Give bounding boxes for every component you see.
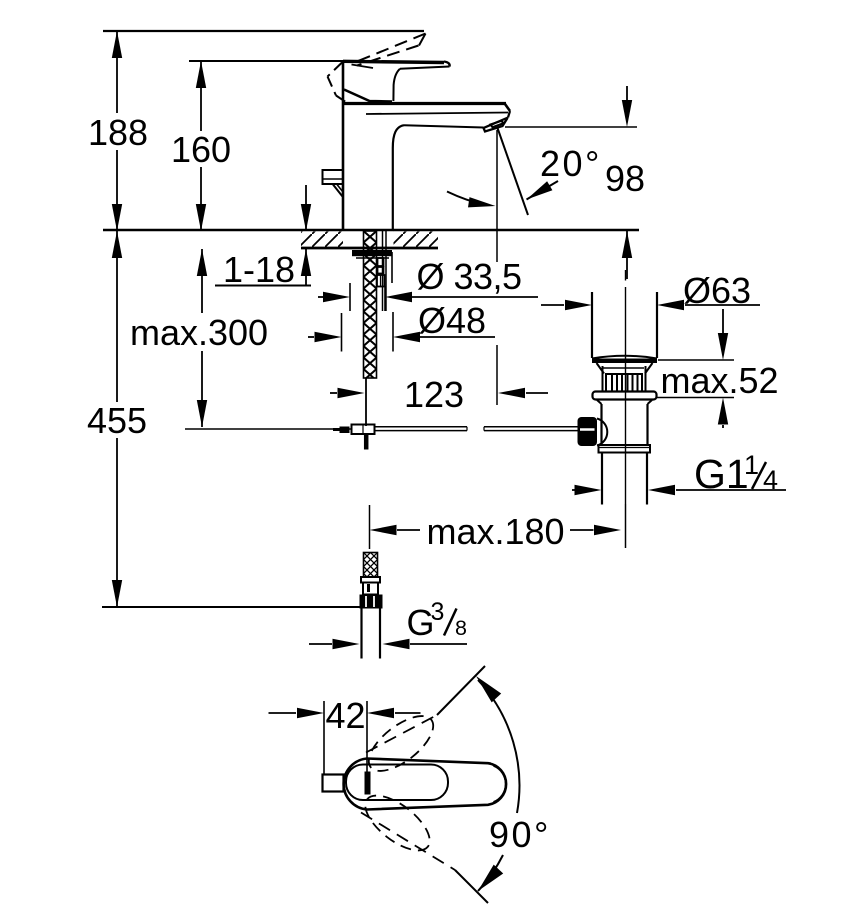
drain centre line [625, 270, 627, 281]
drain body taper [597, 400, 602, 404]
dimension 98 [626, 86, 628, 104]
dimension 188 line [116, 31, 118, 113]
handle top view tip line [494, 766, 506, 802]
svg-text:max.300: max.300 [130, 312, 268, 353]
dimension 160 line [200, 61, 202, 131]
svg-text:98: 98 [605, 158, 645, 199]
svg-text:160: 160 [171, 129, 231, 170]
svg-text:G1: G1 [694, 451, 749, 497]
svg-text:123: 123 [404, 374, 464, 415]
handle neck curve [393, 69, 400, 101]
dimension diameter 33.5 [349, 283, 351, 311]
drain plug flange band [592, 359, 657, 364]
deck hatching right [394, 232, 439, 248]
handle top view inner line [346, 765, 448, 801]
dimension G1 1/4 [572, 489, 575, 491]
drain neck sides [602, 366, 604, 392]
pop-up rod left segment [375, 426, 468, 428]
deck hatching left [301, 232, 343, 248]
dimension 123 [330, 392, 337, 394]
svg-text:Ø 33,5: Ø 33,5 [416, 256, 521, 297]
20 degree leader arrow [527, 181, 559, 200]
faucet body front curve [393, 125, 404, 229]
drain plug dome [592, 356, 657, 359]
water stream 20 degree line [498, 128, 529, 215]
rod level extension line [185, 428, 352, 430]
svg-text:1: 1 [744, 450, 759, 480]
dashed swing line lower [361, 813, 455, 871]
pull rod lower tip [364, 434, 369, 450]
faucet spout aerator [484, 118, 509, 132]
countertop deck bottom line [301, 247, 438, 250]
dimension 42 [323, 701, 325, 776]
hose braid lower [364, 553, 378, 578]
handle lever underside [400, 67, 450, 69]
svg-text:90°: 90° [489, 814, 551, 855]
faucet spout right edge [508, 111, 510, 118]
valve stub top view [323, 775, 344, 792]
drain neck taper [597, 363, 605, 374]
svg-text:20°: 20° [540, 143, 602, 184]
dimension max.52 [722, 309, 724, 333]
faucet body top edge [342, 102, 506, 105]
max52 extension lines [658, 359, 734, 361]
dimension G 3/8 [309, 643, 332, 645]
spout centre vertical line [496, 130, 498, 262]
threaded shank braided hose [364, 231, 377, 378]
pull rod connector [352, 425, 375, 435]
90 degree swing arc [478, 680, 519, 813]
datum line bottom (hose end) [102, 606, 360, 608]
faucet body top back edge [366, 113, 508, 115]
datum line 160 (handle top) [189, 60, 344, 62]
body side tab [323, 170, 344, 184]
dimension max.180 [369, 505, 371, 549]
svg-text:455: 455 [87, 400, 147, 441]
drain knob [578, 417, 598, 446]
drain ring [599, 445, 651, 453]
handle top view marker [365, 772, 371, 795]
svg-text:42: 42 [325, 695, 365, 736]
drain lower pipe [601, 453, 603, 505]
svg-text:max.180: max.180 [426, 511, 564, 552]
faucet spout underside [404, 125, 484, 127]
drain crown slots [606, 374, 642, 392]
pop-up rod right segment [484, 426, 578, 428]
svg-text:188: 188 [88, 112, 148, 153]
handle cartridge dome line [352, 65, 374, 69]
hose fitting [361, 577, 380, 583]
handle dashed raised position [352, 34, 426, 64]
faucet body left edge [342, 61, 345, 229]
dimension 1-18 [305, 185, 307, 231]
hose pipe end [360, 609, 362, 659]
flow curved arrow [447, 192, 484, 205]
dashed swing line upper [366, 715, 437, 753]
dimension 455 line [116, 231, 118, 402]
svg-text:1-18: 1-18 [223, 249, 295, 290]
handle dashed position upper [360, 706, 442, 781]
svg-text:3: 3 [431, 598, 445, 626]
svg-text:Ø48: Ø48 [418, 300, 486, 341]
dimension max.300 line [201, 249, 203, 313]
handle bottom edge [344, 90, 392, 102]
svg-text:8: 8 [455, 616, 467, 640]
svg-text:Ø63: Ø63 [683, 270, 751, 311]
handle lever top edge [343, 61, 444, 62]
drain body tube [600, 404, 602, 445]
svg-text:max.52: max.52 [660, 360, 778, 401]
handle top view outline [344, 759, 506, 810]
datum line top (handle max height) [103, 30, 424, 32]
drain body flange [593, 392, 657, 400]
pull rod upper [365, 378, 367, 426]
countertop deck top line [103, 229, 639, 231]
mounting washer [352, 250, 392, 256]
svg-text:4: 4 [763, 465, 778, 495]
drain plug head sides [591, 292, 593, 358]
spout height extension line [505, 126, 637, 128]
handle dashed position lower [356, 786, 438, 861]
hose nut [360, 595, 383, 609]
dimension diameter 63 [541, 304, 564, 306]
dimension diameter 48 [341, 313, 343, 352]
pull rod housing [382, 231, 384, 311]
handle lever tip [444, 62, 450, 67]
